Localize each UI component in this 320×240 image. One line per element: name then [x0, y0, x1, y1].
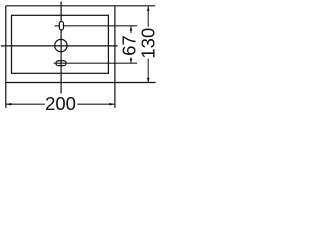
svg-text:67: 67: [118, 35, 139, 56]
svg-text:200: 200: [45, 93, 76, 114]
svg-text:130: 130: [137, 28, 158, 59]
